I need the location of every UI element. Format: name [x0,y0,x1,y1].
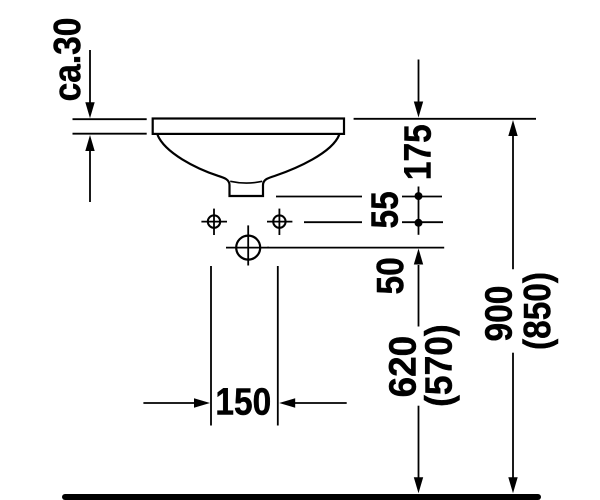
svg-text:ca.30: ca.30 [46,18,88,102]
svg-text:(570): (570) [417,324,459,406]
svg-text:175: 175 [396,124,438,180]
svg-text:900: 900 [477,286,519,342]
svg-text:150: 150 [215,381,271,423]
svg-text:50: 50 [369,257,411,294]
svg-text:(850): (850) [516,272,558,350]
svg-text:55: 55 [363,191,405,228]
